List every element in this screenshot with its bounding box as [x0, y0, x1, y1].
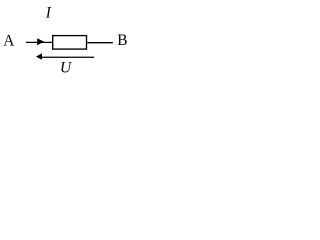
current arrow head [37, 38, 44, 45]
svg-text:A: A [3, 32, 14, 49]
svg-text:I: I [45, 4, 52, 21]
resistor R (box) [53, 36, 87, 50]
voltage arrow U (line) [40, 56, 94, 58]
wire [87, 42, 113, 44]
svg-text:U: U [60, 60, 72, 77]
voltage arrow head [36, 53, 42, 59]
wire [26, 41, 52, 43]
svg-text:B: B [117, 32, 127, 49]
